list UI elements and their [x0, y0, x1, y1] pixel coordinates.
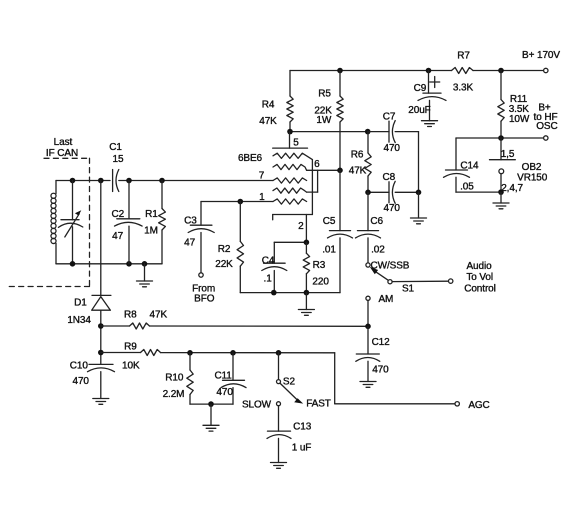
svg-text:.01: .01 [322, 244, 336, 255]
svg-text:220: 220 [312, 276, 329, 287]
wire R9 rail [161, 352, 335, 354]
svg-text:C13: C13 [293, 422, 312, 433]
svg-text:C4: C4 [262, 256, 275, 267]
ground C12 [360, 381, 376, 383]
tube grid row3 (pin 7) [273, 178, 307, 183]
capacitor C12 [367, 326, 369, 354]
node junction R11/B+ [498, 68, 504, 74]
svg-text:BFO: BFO [194, 294, 215, 305]
tube right frame [311, 160, 313, 215]
capacitor C10 [89, 363, 113, 365]
node junction S2 [276, 350, 282, 356]
svg-text:R5: R5 [318, 88, 331, 99]
svg-text:IF CAN: IF CAN [46, 148, 78, 159]
wire C14 bottom [456, 191, 501, 193]
wire B+ rail left [290, 70, 452, 72]
node junction coil top [70, 178, 76, 184]
svg-text:R4: R4 [262, 100, 275, 111]
svg-text:R9: R9 [124, 341, 137, 352]
tube grid row4 [273, 188, 307, 193]
svg-text:10K: 10K [122, 361, 140, 372]
wire pin1 rail [201, 201, 273, 203]
svg-text:5: 5 [293, 138, 299, 149]
ground C9 [422, 120, 438, 122]
node junction R10/C11 ground [208, 401, 214, 407]
node junction OB2/C14 [498, 189, 504, 195]
ground OB2 [500, 192, 502, 203]
node junction R11/OB2 [498, 135, 504, 141]
svg-text:47: 47 [184, 238, 195, 249]
svg-text:15: 15 [113, 154, 124, 165]
node junction R6/C8/C6 [365, 190, 371, 196]
node Audio terminal [449, 279, 453, 283]
svg-text:1M: 1M [144, 225, 158, 236]
svg-text:VR150: VR150 [517, 173, 548, 184]
resistor R5 [339, 71, 341, 97]
wire pin2 lead [305, 215, 307, 243]
svg-text:20uF: 20uF [408, 105, 430, 116]
svg-text:C12: C12 [372, 337, 391, 348]
node junction R1 top [159, 178, 165, 184]
svg-text:C14: C14 [460, 160, 479, 171]
svg-text:7: 7 [259, 171, 265, 182]
node From BFO terminal [199, 273, 203, 277]
svg-text:.1: .1 [264, 274, 273, 285]
tube grid row2 [273, 164, 307, 170]
svg-text:R6: R6 [351, 150, 364, 161]
wire plate rail [290, 131, 368, 133]
svg-text:R10: R10 [165, 373, 184, 384]
wire bottom mid rail [240, 292, 340, 294]
ground C13 [271, 462, 287, 464]
svg-text:47K: 47K [349, 166, 367, 177]
svg-text:To Vol: To Vol [466, 272, 493, 283]
svg-text:C3: C3 [184, 215, 197, 226]
svg-text:Audio: Audio [466, 261, 492, 272]
svg-text:B+ 170V: B+ 170V [522, 50, 560, 61]
node junction R10 top [187, 350, 193, 356]
svg-text:C2: C2 [112, 209, 125, 220]
node junction C1/C2 [126, 178, 132, 184]
capacitor variable tuning [72, 181, 74, 220]
resistor R11 [500, 71, 502, 100]
node B+ to HF OSC terminal [544, 136, 548, 140]
svg-text:470: 470 [73, 376, 90, 387]
ground R3 [305, 293, 307, 310]
svg-text:1N34: 1N34 [67, 315, 91, 326]
node junction C8 right [416, 190, 422, 196]
node SLOW contact [277, 402, 281, 406]
resistor R8 [101, 325, 130, 327]
wire R8 to AM node [150, 325, 369, 327]
svg-text:2: 2 [298, 221, 304, 232]
capacitor C6 [367, 192, 369, 230]
svg-text:Control: Control [464, 283, 496, 294]
node B+ terminal [544, 68, 548, 72]
svg-text:3.3K: 3.3K [453, 83, 474, 94]
wire S2 rail to AGC [334, 353, 336, 404]
svg-text:S2: S2 [283, 377, 296, 388]
wire C7/C8 right side [418, 132, 420, 193]
switch S2 [278, 353, 280, 380]
resistor R4 [289, 71, 291, 97]
node AM contact [366, 296, 370, 300]
svg-text:AGC: AGC [468, 400, 489, 411]
tube OB2 VR150 [500, 138, 502, 160]
svg-text:470: 470 [216, 387, 233, 398]
svg-text:R2: R2 [218, 244, 231, 255]
node S1 pole [388, 280, 392, 284]
svg-text:C5: C5 [323, 216, 336, 227]
capacitor C11 [232, 353, 234, 381]
wire IF rail top [56, 180, 110, 182]
tube grid row1 [273, 153, 312, 159]
svg-text:470: 470 [384, 203, 401, 214]
resistor R1 [161, 181, 163, 209]
node junction pin2/R3/C4 [304, 240, 310, 246]
wire pin6 [307, 169, 340, 171]
ground C7/C8 [418, 192, 420, 218]
svg-text:47: 47 [112, 231, 123, 242]
svg-text:2.2M: 2.2M [163, 389, 185, 400]
tube plate bar [273, 147, 308, 149]
svg-text:C8: C8 [383, 172, 396, 183]
svg-text:1W: 1W [316, 115, 331, 126]
node junction C7/R6 [365, 129, 371, 135]
svg-text:C9: C9 [414, 83, 427, 94]
ground C10 [93, 398, 109, 400]
svg-text:C6: C6 [370, 216, 383, 227]
svg-text:S1: S1 [402, 283, 415, 294]
inductor L1 IF coil [55, 181, 57, 194]
capacitor C3 [200, 202, 202, 226]
svg-text:OSC: OSC [536, 121, 557, 132]
node junction D1/R8 [98, 323, 104, 329]
capacitor C4 [274, 241, 306, 243]
svg-text:47K: 47K [150, 310, 168, 321]
resistor R6 [367, 132, 369, 153]
svg-text:R7: R7 [457, 51, 470, 62]
node junction R5/B+ [337, 68, 343, 74]
node junction C4 bottom [271, 290, 277, 296]
svg-text:C1: C1 [109, 142, 122, 153]
svg-text:47K: 47K [259, 116, 277, 127]
svg-text:C7: C7 [383, 111, 396, 122]
capacitor C1 [112, 170, 114, 192]
svg-text:Last: Last [54, 137, 73, 148]
capacitor C5 [339, 170, 341, 230]
capacitor C13 [278, 406, 280, 431]
node junction ground IF [142, 261, 148, 267]
svg-text:AM: AM [378, 294, 393, 305]
node CW/SSB contact [366, 263, 370, 267]
svg-text:R8: R8 [124, 309, 137, 320]
ground R10/C11 [210, 404, 212, 425]
wire S1 to audio terminal [392, 280, 449, 282]
wire dashed IF can boundary [7, 158, 90, 286]
svg-text:1,5: 1,5 [501, 149, 515, 160]
svg-text:R3: R3 [313, 260, 326, 271]
node junction R3 bottom [304, 290, 310, 296]
resistor R10 [189, 353, 191, 370]
capacitor C7 [368, 131, 389, 133]
node junction D1/R9/C10 [98, 350, 104, 356]
svg-text:10W: 10W [509, 114, 530, 125]
node junction AM/R8/C12 [365, 324, 371, 330]
svg-text:470: 470 [372, 365, 389, 376]
svg-text:SLOW: SLOW [242, 400, 272, 411]
capacitor C8 [368, 191, 389, 193]
wire IF rail bottom [56, 263, 162, 265]
svg-text:1: 1 [259, 192, 265, 203]
node junction varcap bottom [70, 261, 76, 267]
resistor R9 [101, 352, 141, 354]
svg-text:6: 6 [314, 159, 320, 170]
svg-text:FAST: FAST [306, 399, 331, 410]
wire pin5 plate lead [289, 132, 291, 149]
node junction D1 tap [98, 178, 104, 184]
capacitor C2 [128, 181, 130, 219]
node junction C11 top [230, 350, 236, 356]
svg-text:.02: .02 [371, 244, 385, 255]
node junction C2 bottom [126, 261, 132, 267]
svg-text:6BE6: 6BE6 [238, 153, 263, 164]
tube bottom bar [273, 214, 313, 216]
svg-text:1 uF: 1 uF [292, 443, 312, 454]
wire pin7 rail [162, 180, 273, 182]
wire grid2/4 bracket [307, 191, 318, 193]
node junction C9/B+ [426, 68, 432, 74]
wire B+ rail right [473, 70, 544, 72]
diode D1 1N34 [100, 181, 102, 296]
svg-text:2,4,7: 2,4,7 [501, 183, 523, 194]
wire B+ HF OSC rail [456, 137, 544, 139]
node junction pin6/R5/C5 [337, 168, 343, 174]
wire AM to C12 [367, 300, 369, 326]
svg-text:D1: D1 [74, 298, 87, 309]
node AGC terminal [455, 402, 459, 406]
svg-text:.05: .05 [460, 182, 474, 193]
node junction R2 top [238, 199, 244, 205]
capacitor C9 [428, 71, 430, 94]
svg-text:R1: R1 [145, 209, 158, 220]
svg-text:C11: C11 [214, 371, 232, 382]
svg-text:C10: C10 [70, 361, 89, 372]
ground IF can [144, 264, 146, 281]
node junction R4/plate [287, 129, 293, 135]
svg-text:22K: 22K [215, 259, 233, 270]
tube grid row5 (pin 1) [273, 199, 307, 204]
resistor R7 [452, 68, 474, 74]
svg-text:470: 470 [384, 143, 401, 154]
capacitor C14 [455, 138, 457, 170]
